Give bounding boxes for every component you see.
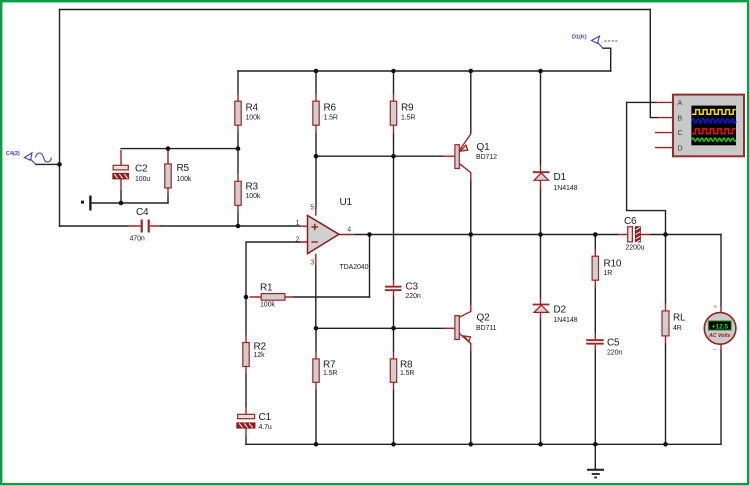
capacitor C5 [586,333,622,357]
wire ground rail near C2 [91,202,169,204]
svg-text:1: 1 [296,220,300,227]
svg-text:C3: C3 [406,282,419,293]
svg-text:4R: 4R [673,325,682,332]
wire top rail input to scope B [60,9,651,11]
svg-text:C4(2): C4(2) [6,151,20,157]
resistor RL [662,303,686,344]
resistor R4 [235,94,261,134]
svg-text:C2: C2 [135,164,148,175]
terminal C4(2) input source [6,151,52,164]
svg-text:100k: 100k [246,193,261,200]
svg-text:12k: 12k [254,352,266,359]
svg-text:R3: R3 [246,181,259,192]
junction C3 bottom / Q2 base rail [391,326,396,331]
transistor Q1 BD712 [444,132,498,180]
svg-text:2200u: 2200u [626,245,645,252]
wire input source to junction [36,163,60,165]
wire Q2 base rail [316,327,443,329]
svg-text:100k: 100k [177,176,192,183]
svg-text:R1: R1 [260,283,273,294]
svg-text:Q1: Q1 [477,142,491,153]
wire C3 bottom to Q2 base node [393,297,395,328]
wire R7 top [315,328,317,351]
wire bottom rail [246,443,721,445]
wire R8 bottom [393,390,395,444]
wire feedback drop [369,235,371,298]
svg-text:R8: R8 [400,360,413,371]
wire scope A horizontal [627,101,656,103]
wire RL bottom [665,344,667,444]
wire C2 R5 top rail [121,148,238,150]
diode D2 1N4148 [533,299,578,325]
svg-text:1R: 1R [604,270,613,277]
svg-text:1N4148: 1N4148 [554,317,578,324]
oscilloscope [655,95,744,157]
svg-text:U1: U1 [340,197,353,208]
svg-text:D: D [678,145,683,152]
svg-text:Q2: Q2 [477,313,491,324]
wire R10 to C5 [594,288,596,333]
svg-text:R7: R7 [323,360,336,371]
svg-text:R10: R10 [604,259,622,270]
svg-text:C6: C6 [624,216,637,227]
junction R9 bottom / Q1 base rail [391,154,396,159]
capacitor C4 [128,207,161,243]
svg-text:100k: 100k [260,302,275,309]
wire left vertical input loop [59,10,61,227]
wire C1 to bottom rail [245,438,247,445]
svg-text:C5: C5 [607,338,620,349]
junction R4/R3 node [236,146,241,151]
wire voltmeter bottom riser [720,351,722,444]
svg-text:1.5R: 1.5R [324,115,338,122]
wire R2 to C1 [245,375,247,407]
svg-text:R9: R9 [401,103,414,114]
svg-text:100u: 100u [135,176,150,183]
svg-text:470n: 470n [130,236,145,243]
svg-text:100k: 100k [246,115,261,122]
svg-text:R2: R2 [254,342,267,353]
svg-text:BD711: BD711 [476,325,497,332]
wire Q2 collector column [470,235,472,305]
junction R8 bottom on bottom rail [391,442,396,447]
junction D1 top on supply rail [538,69,543,74]
junction C2 bottom / ground rail [119,201,124,206]
svg-text:5: 5 [310,204,314,211]
svg-text:1N4148: 1N4148 [554,185,578,192]
svg-text:C1: C1 [259,412,272,423]
wire voltmeter top riser [720,235,722,306]
junction R10 top on output rail [593,232,598,237]
wire input line to op-amp pin1 [60,225,129,227]
svg-text:A: A [678,100,683,107]
wire R10 top [594,235,596,249]
svg-text:3: 3 [310,260,314,267]
junction inverting input node [244,295,249,300]
junction input node [57,162,62,167]
svg-text:TDA2040: TDA2040 [340,264,369,271]
svg-text:B: B [678,115,683,122]
wire C2 bottom [120,191,122,203]
wire R9 top [393,71,395,94]
transistor Q2 BD711 [444,305,497,352]
capacitor C6 [618,216,650,252]
resistor R2 [243,335,267,375]
junction R7 bottom on bottom rail [314,442,319,447]
svg-text:R6: R6 [324,103,337,114]
capacitor C2 [113,150,151,192]
svg-text:−: − [712,347,716,354]
junction D2 bottom on bottom rail [538,442,543,447]
svg-text:D2: D2 [554,305,567,316]
op-amp U1 [296,197,369,271]
wire C5 bottom [594,351,596,445]
resistor R6 [313,94,338,134]
junction ground node on bottom rail [593,442,598,447]
svg-text:1.5R: 1.5R [401,115,415,122]
resistor R9 [390,94,415,134]
voltmeter AC Volts [704,304,736,354]
wire output rail right part [650,234,721,236]
resistor R1 [250,283,295,309]
wire Q2 emitter column [470,351,472,444]
wire supply rail [238,70,611,72]
wire R7 bottom [315,390,317,444]
capacitor C3 [385,280,421,301]
svg-text:2: 2 [296,236,300,243]
svg-text:1.5R: 1.5R [323,370,337,377]
junction R5 top [166,146,171,151]
junction D1/D2 on output rail [538,232,543,237]
svg-text:R4: R4 [246,103,259,114]
wire D1(K) terminal riser [603,48,611,71]
wire RL top [665,235,667,304]
wire scope B drop [650,10,657,118]
junction Q2 emitter on bottom rail [469,442,474,447]
svg-text:220n: 220n [406,293,421,300]
wire R5 bottom [167,195,169,204]
junction R9 top on supply rail [391,69,396,74]
junction R6 bottom / Q1 base rail [314,154,319,159]
wire R3 bottom [237,214,239,227]
svg-text:+12.5: +12.5 [712,324,729,331]
wire D1 top [540,71,542,165]
wire pin5 riser [315,156,317,208]
wire R4 top [237,71,239,94]
ground bottom [587,470,604,478]
resistor R7 [313,351,338,390]
svg-text:RL: RL [673,313,686,324]
wire ground stub bottom [594,444,596,469]
wire Q1 collector column [470,180,472,235]
wire Q1 base rail [316,155,444,157]
diode D1 1N4148 [533,165,578,192]
wire scope A probe [627,102,666,234]
resistor R10 [592,249,622,289]
svg-text:C: C [678,130,683,137]
svg-text:+: + [713,304,717,311]
junction op-amp output node [367,232,372,237]
wire C3 top from Q1 base node [393,156,395,279]
wire D1 bottom [540,190,542,235]
junction C6 right / RL top node [663,232,668,237]
wire pin2 from inverting node [246,242,300,297]
wire R8 top [393,328,395,351]
wire feedback to R1 [294,296,370,298]
svg-text:4: 4 [347,227,351,234]
terminal D1(K) [572,35,619,49]
svg-text:R5: R5 [177,163,190,174]
wire inverting node to R2 [245,297,247,335]
junction RL bottom on bottom rail [663,442,668,447]
svg-text:220n: 220n [607,350,622,357]
wire D2 bottom [540,320,542,445]
resistor R8 [390,351,414,390]
wire R9 bottom to base rail [393,134,395,157]
svg-text:BD712: BD712 [476,154,497,161]
resistor R5 [165,149,192,195]
resistor R3 [235,173,261,214]
svg-text:AC Volts: AC Volts [708,333,731,339]
wire pin3 drop [315,266,317,328]
capacitor C1 [237,406,272,437]
junction R3 bottom / pin1 line [236,224,241,229]
wire Q1 emitter column [470,71,472,132]
svg-text:1.5R: 1.5R [400,370,414,377]
wire D2 top [540,235,542,299]
svg-text:D1: D1 [554,172,567,183]
svg-text:4.7u: 4.7u [259,424,272,431]
wire R6 bottom to base rail [315,134,317,157]
svg-text:C4: C4 [136,207,149,218]
ground near C2 [81,196,92,211]
junction Q1 collector on output rail [469,232,474,237]
wire R4 to R3 junction [237,134,239,173]
wire R6 top [315,71,317,94]
junction Q1 emitter on supply rail [469,69,474,74]
junction pin3 / Q2 base rail [314,326,319,331]
junction R6 top on supply rail [314,69,319,74]
svg-text:D1(K): D1(K) [572,35,587,41]
wire output rail left part [355,234,618,236]
